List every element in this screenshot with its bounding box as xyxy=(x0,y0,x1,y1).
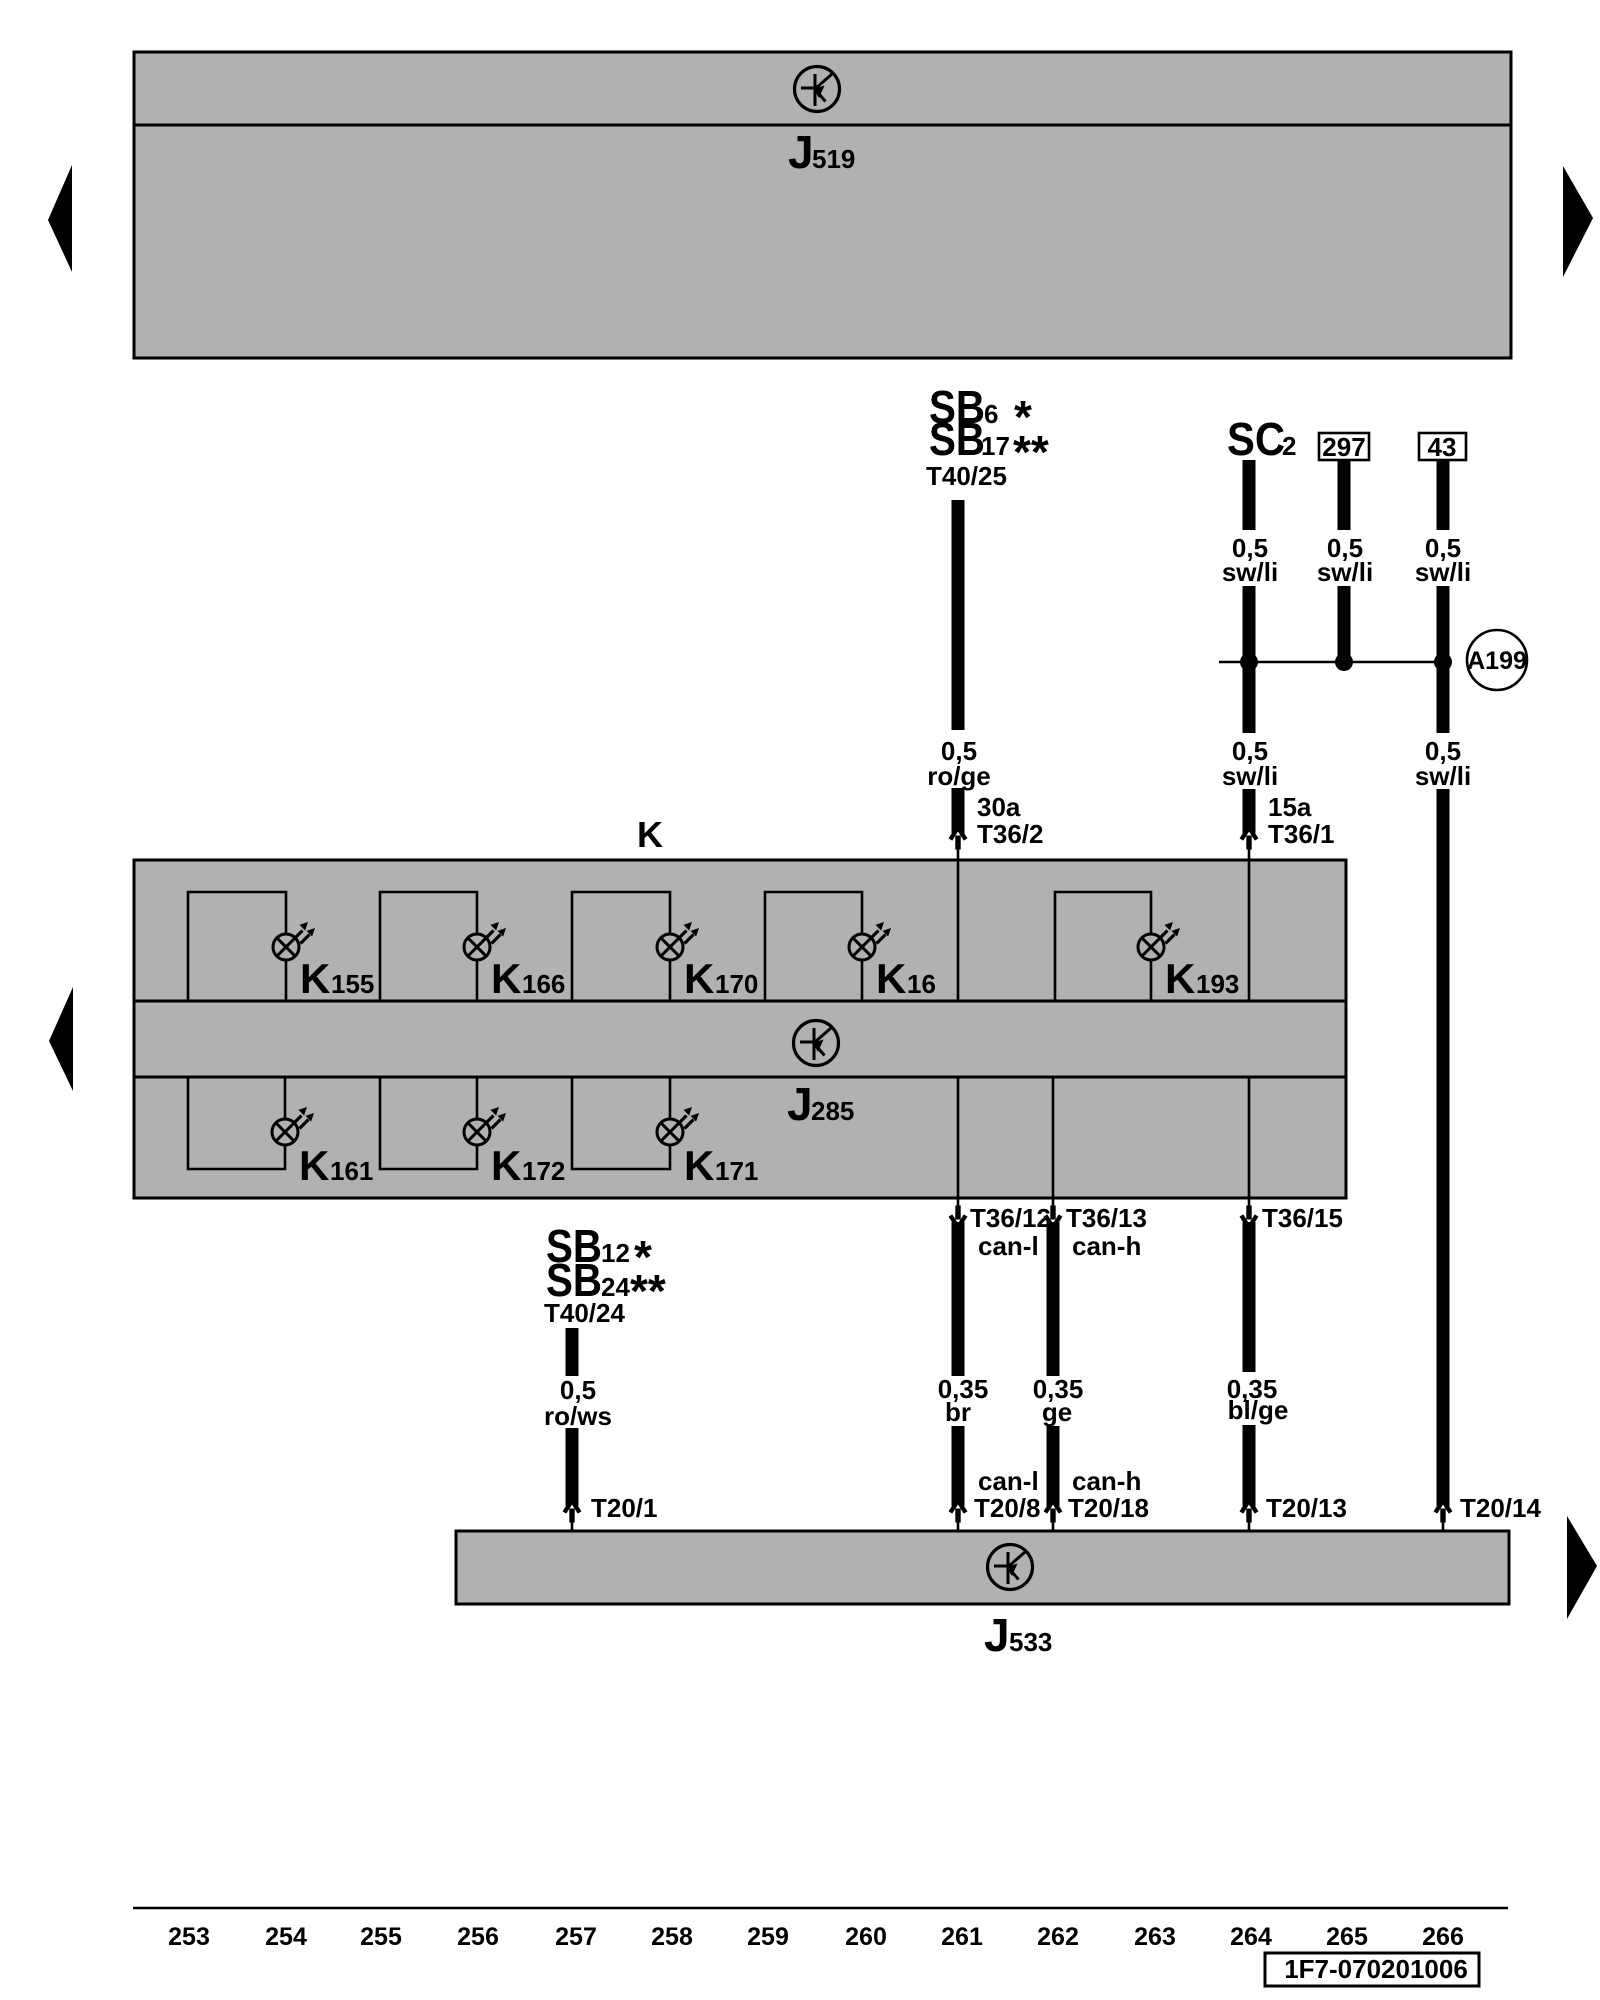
svg-text:A199: A199 xyxy=(1467,647,1527,675)
continuation arrow bottom right xyxy=(1567,1516,1597,1619)
wire bl/ge T36/15 to T20/13 xyxy=(1243,1222,1256,1506)
svg-text:263: 263 xyxy=(1134,1923,1176,1951)
lamp K161 xyxy=(272,1107,314,1145)
svg-text:sw/li: sw/li xyxy=(1222,761,1278,791)
svg-text:16: 16 xyxy=(907,969,936,999)
svg-text:253: 253 xyxy=(168,1923,210,1951)
junction dot SC2 xyxy=(1240,653,1258,671)
svg-text:sw/li: sw/li xyxy=(1317,557,1373,587)
svg-text:K: K xyxy=(1165,955,1195,1002)
lamp K171 xyxy=(657,1107,699,1145)
wire label 0,5 ro/ws xyxy=(540,1376,606,1428)
continuation arrow top left xyxy=(48,165,72,272)
svg-text:T36/1: T36/1 xyxy=(1268,819,1335,849)
svg-text:can-h: can-h xyxy=(1072,1231,1141,1261)
svg-text:170: 170 xyxy=(715,969,758,999)
wire label 0,5 sw/li (297) xyxy=(1308,530,1380,586)
svg-text:261: 261 xyxy=(941,1923,983,1951)
J519 internal divider line xyxy=(134,124,1511,127)
svg-text:15a: 15a xyxy=(1268,792,1312,822)
lamp K155 xyxy=(273,922,315,960)
svg-text:K: K xyxy=(876,955,906,1002)
svg-text:T36/13: T36/13 xyxy=(1066,1203,1147,1233)
svg-text:can-h: can-h xyxy=(1072,1466,1141,1496)
svg-text:ro/ge: ro/ge xyxy=(927,761,991,791)
svg-text:K: K xyxy=(491,1142,521,1189)
svg-text:T20/1: T20/1 xyxy=(591,1493,658,1523)
svg-text:ge: ge xyxy=(1042,1397,1072,1427)
svg-text:sw/li: sw/li xyxy=(1415,761,1471,791)
diagram reference box 1F7-070201006 xyxy=(1265,1953,1479,1986)
svg-text:J: J xyxy=(788,126,814,178)
svg-text:264: 264 xyxy=(1230,1923,1272,1951)
wire SC2 to J285 pin T36/1 xyxy=(1243,460,1256,833)
svg-text:T36/2: T36/2 xyxy=(977,819,1044,849)
pin arrow T36/13 xyxy=(1044,1195,1062,1230)
svg-text:17: 17 xyxy=(981,431,1010,461)
lamp K16 xyxy=(849,922,891,960)
svg-text:K: K xyxy=(299,1142,329,1189)
svg-text:297: 297 xyxy=(1322,432,1365,462)
svg-text:256: 256 xyxy=(457,1923,499,1951)
pin arrow T20/14 xyxy=(1434,1499,1452,1534)
cell K161 xyxy=(188,1077,285,1169)
terminal box 43 xyxy=(1419,433,1466,460)
continuation arrow top right xyxy=(1563,166,1593,277)
junction dot 297 xyxy=(1335,653,1353,671)
cell K170 xyxy=(572,892,670,1001)
J285 function symbol xyxy=(794,1021,839,1066)
cell K155 xyxy=(188,892,286,1001)
wire label 0,5 ro/ge xyxy=(938,730,982,788)
internal wire T36/15 xyxy=(1248,1077,1251,1198)
K box band line upper xyxy=(134,1000,1346,1003)
cell K171 xyxy=(572,1077,670,1169)
svg-text:T20/8: T20/8 xyxy=(974,1493,1041,1523)
svg-text:155: 155 xyxy=(331,969,374,999)
wire SB fuse to J533 pin T20/1 xyxy=(566,1328,579,1506)
wire 297 to node A199 xyxy=(1338,460,1351,662)
svg-text:K: K xyxy=(491,955,521,1002)
svg-text:258: 258 xyxy=(651,1923,693,1951)
node bus wire A199 xyxy=(1219,661,1443,664)
K box band line lower xyxy=(134,1076,1346,1079)
cell K166 xyxy=(380,892,477,1001)
svg-text:can-l: can-l xyxy=(978,1231,1039,1261)
pin arrow T36/12 xyxy=(949,1195,967,1230)
terminal box 297 xyxy=(1319,433,1369,460)
wire 43 to J533 pin T20/14 xyxy=(1437,460,1450,1506)
svg-text:**: ** xyxy=(630,1265,666,1317)
cell K193 xyxy=(1055,892,1151,1001)
pin arrow T20/1 xyxy=(563,1499,581,1534)
svg-text:sw/li: sw/li xyxy=(1415,557,1471,587)
svg-text:**: ** xyxy=(1013,426,1049,478)
wire label 0,35 bl/ge xyxy=(1222,1372,1296,1425)
svg-text:T36/12: T36/12 xyxy=(970,1203,1051,1233)
lamp K170 xyxy=(657,922,699,960)
svg-text:259: 259 xyxy=(747,1923,789,1951)
node label A199 xyxy=(1467,630,1527,690)
svg-text:533: 533 xyxy=(1009,1627,1052,1657)
svg-text:K: K xyxy=(637,814,663,855)
svg-text:171: 171 xyxy=(715,1156,758,1186)
svg-text:can-l: can-l xyxy=(978,1466,1039,1496)
svg-text:J: J xyxy=(787,1078,813,1130)
svg-text:193: 193 xyxy=(1196,969,1239,999)
svg-text:ro/ws: ro/ws xyxy=(544,1401,612,1431)
J533 function symbol xyxy=(988,1545,1033,1590)
svg-text:519: 519 xyxy=(812,144,855,174)
pin arrow T20/13 xyxy=(1240,1499,1258,1534)
internal wire T36/12 xyxy=(957,1077,960,1198)
lamp K193 xyxy=(1138,922,1180,960)
svg-text:br: br xyxy=(945,1397,971,1427)
svg-text:254: 254 xyxy=(265,1923,307,1951)
svg-text:T40/24: T40/24 xyxy=(544,1298,625,1328)
pin arrow T36/15 xyxy=(1240,1195,1258,1230)
svg-text:43: 43 xyxy=(1428,432,1457,462)
svg-text:T20/18: T20/18 xyxy=(1068,1493,1149,1523)
svg-text:SC: SC xyxy=(1227,413,1285,465)
svg-text:K: K xyxy=(684,1142,714,1189)
pin arrow T36/2 xyxy=(949,826,967,861)
svg-text:SB: SB xyxy=(929,413,985,465)
svg-text:1F7-070201006: 1F7-070201006 xyxy=(1284,1954,1468,1984)
pin arrow T36/1 xyxy=(1240,826,1258,861)
svg-text:J: J xyxy=(984,1609,1010,1661)
internal wire T36/1 xyxy=(1248,860,1251,1001)
svg-text:255: 255 xyxy=(360,1923,402,1951)
wire label 0,5 sw/li (43) xyxy=(1407,530,1479,586)
gateway J533 box xyxy=(456,1531,1509,1604)
svg-text:172: 172 xyxy=(522,1156,565,1186)
lamp K166 xyxy=(464,922,506,960)
svg-text:K: K xyxy=(684,955,714,1002)
svg-text:T20/14: T20/14 xyxy=(1460,1493,1541,1523)
wire label 0,5 sw/li (SC2 lower) xyxy=(1214,733,1286,789)
svg-text:260: 260 xyxy=(845,1923,887,1951)
pin arrow T20/18 xyxy=(1044,1499,1062,1534)
wire label 0,5 sw/li (43 lower) xyxy=(1407,733,1479,789)
wire label 0,5 sw/li (SC2) xyxy=(1214,530,1286,586)
wire label 0,35 br xyxy=(936,1376,990,1426)
wire can-l T36/12 to T20/8 xyxy=(952,1222,965,1506)
J519 function symbol xyxy=(795,67,840,112)
svg-text:161: 161 xyxy=(330,1156,373,1186)
svg-text:257: 257 xyxy=(555,1923,597,1951)
svg-text:sw/li: sw/li xyxy=(1222,557,1278,587)
control module J519 box xyxy=(134,52,1511,358)
svg-text:166: 166 xyxy=(522,969,565,999)
svg-text:6: 6 xyxy=(984,399,998,429)
pin arrow T20/8 xyxy=(949,1499,967,1534)
cell K172 xyxy=(380,1077,477,1169)
svg-text:285: 285 xyxy=(811,1096,854,1126)
svg-text:T40/25: T40/25 xyxy=(926,461,1007,491)
svg-text:266: 266 xyxy=(1422,1923,1464,1951)
wire can-h T36/13 to T20/18 xyxy=(1047,1222,1060,1506)
current track ruler line xyxy=(133,1907,1508,1910)
cell K16 xyxy=(765,892,862,1001)
junction dot 43 xyxy=(1434,653,1452,671)
svg-text:T20/13: T20/13 xyxy=(1266,1493,1347,1523)
internal wire T36/2 xyxy=(957,860,960,1001)
svg-text:30a: 30a xyxy=(977,792,1021,822)
svg-text:12: 12 xyxy=(601,1238,630,1268)
svg-text:T36/15: T36/15 xyxy=(1262,1203,1343,1233)
svg-text:262: 262 xyxy=(1037,1923,1079,1951)
wire label 0,35 ge xyxy=(1031,1376,1085,1426)
wire SB fuse to J285 pin T36/2 xyxy=(952,500,965,833)
lamp K172 xyxy=(464,1107,506,1145)
instrument cluster K box xyxy=(134,860,1346,1198)
internal wire T36/13 xyxy=(1052,1077,1055,1198)
svg-text:2: 2 xyxy=(1282,431,1296,461)
svg-text:bl/ge: bl/ge xyxy=(1228,1395,1289,1425)
svg-text:265: 265 xyxy=(1326,1923,1368,1951)
continuation arrow middle left xyxy=(49,987,73,1091)
svg-text:K: K xyxy=(300,955,330,1002)
